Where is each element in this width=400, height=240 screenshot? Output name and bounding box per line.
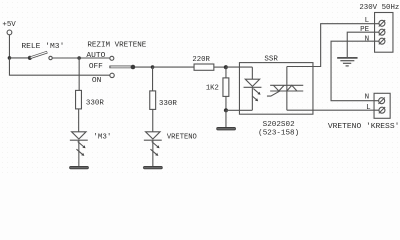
connector X2 terminal L — [379, 107, 385, 113]
label VRETENO 'KRESS' — [328, 123, 400, 131]
wire top rail to switch pole — [9, 57, 28, 59]
svg-text:'M3': 'M3' — [93, 134, 111, 142]
label (523-158) — [258, 130, 299, 138]
wire opto anode lead — [251, 67, 253, 79]
label R1 330R — [86, 99, 104, 107]
svg-text:VRETENO: VRETENO — [167, 134, 197, 142]
opto LED arrows — [252, 89, 260, 102]
connector X1 230V body — [375, 13, 393, 53]
svg-text:+5V: +5V — [2, 21, 16, 29]
svg-text:VRETENO 'KRESS': VRETENO 'KRESS' — [328, 123, 400, 131]
wire LED1 to ground — [78, 140, 80, 166]
wire triac MT2 up and to L terminal — [287, 24, 379, 67]
rotary switch ON contact circle — [110, 73, 114, 77]
switch S1 blade (open) — [30, 52, 47, 58]
label AUTO — [86, 52, 105, 60]
wire node down to R4 — [225, 67, 227, 78]
switch S1 throw contact circle — [49, 56, 52, 59]
label N top — [365, 36, 370, 44]
svg-text:1K2: 1K2 — [206, 85, 219, 93]
svg-text:230V 50Hz: 230V 50Hz — [359, 4, 399, 12]
label LED1 'M3' — [93, 134, 111, 142]
wire triac MT1 to VRETENO L terminal — [287, 109, 379, 111]
label S202S02 — [263, 121, 295, 129]
wire lower rail +5V to ON contact — [9, 58, 109, 75]
svg-text:S202S02: S202S02 — [263, 121, 295, 129]
svg-text:PE: PE — [360, 26, 369, 34]
svg-text:OFF: OFF — [89, 63, 103, 71]
wire bottom node to ground — [225, 110, 227, 127]
triac Q1 right triangle — [287, 85, 297, 91]
connector X2 VRETENO body — [374, 93, 390, 118]
wire R3 to node — [214, 66, 227, 68]
wire N to VRETENO connector — [331, 41, 379, 101]
svg-text:N: N — [365, 94, 370, 102]
ground GND1 bar — [70, 166, 89, 168]
wire rotary common to junction — [135, 66, 154, 68]
earth ground PE symbol — [337, 58, 357, 66]
label OFF — [89, 63, 103, 71]
connector X1 terminal N — [379, 38, 385, 44]
svg-text:L: L — [365, 17, 370, 25]
connector X2 terminal N — [378, 98, 384, 104]
node junction R4 top — [224, 65, 228, 69]
svg-text:330R: 330R — [159, 100, 177, 108]
wire +5V vertical down to top rail — [8, 35, 10, 58]
label R2 330R — [159, 100, 177, 108]
svg-text:AUTO: AUTO — [86, 52, 105, 60]
svg-text:REZIM VRETENE: REZIM VRETENE — [87, 41, 146, 49]
svg-text:RELE 'M3': RELE 'M3' — [21, 43, 64, 51]
svg-text:330R: 330R — [86, 99, 104, 107]
wire R2 to LED2 — [152, 109, 154, 131]
ground GND3 bar — [217, 128, 236, 130]
wire R1 to LED1 — [78, 109, 80, 132]
wire AUTO branch down to R1 — [78, 58, 80, 90]
svg-text:L: L — [366, 104, 371, 112]
label LED2 VRETENO — [167, 134, 197, 142]
wire junction to R3 — [153, 66, 195, 68]
label ON — [92, 77, 102, 85]
svg-text:N: N — [365, 36, 370, 44]
label R3 220R — [192, 56, 210, 64]
node junction R4 bottom — [224, 108, 228, 112]
label PE — [360, 26, 369, 34]
opto LED cathode bar — [244, 86, 262, 88]
node junction AUTO branch — [77, 56, 109, 60]
label L bottom — [366, 104, 371, 112]
wire R4 to bottom node — [225, 96, 227, 110]
wire PE to earth — [347, 32, 379, 57]
wire opto cathode lead — [251, 87, 253, 110]
LED D1 arrows — [76, 142, 85, 156]
wire junction down to R2 — [152, 67, 154, 91]
resistor R2 330R body — [150, 91, 156, 110]
supply +5V label — [2, 21, 16, 29]
label SSR — [264, 56, 278, 64]
rotary switch AUTO contact circle — [110, 56, 114, 60]
wire LED2 to ground — [152, 140, 154, 166]
resistor R4 1K2 body — [223, 78, 229, 97]
rotary switch blade on OFF position — [109, 66, 132, 69]
switch S1 RELE M3 pole dot — [28, 56, 32, 60]
supply +5V pin circle — [7, 30, 12, 35]
LED D1 cathode bar — [70, 139, 88, 141]
LED D1 'M3' triangle — [72, 132, 87, 139]
triac Q1 vertical lead — [286, 67, 288, 111]
node junction at +5V rail split — [8, 56, 12, 60]
rotary switch common pole dot — [131, 65, 136, 70]
resistor R1 330R body — [76, 90, 82, 109]
label RELE 'M3' — [21, 43, 64, 51]
svg-text:ON: ON — [92, 77, 102, 85]
triac Q1 gate — [267, 91, 280, 96]
resistor R3 220R body — [194, 64, 214, 70]
wire bottom node to opto cathode — [226, 109, 252, 111]
wire node into SSR opto anode — [226, 66, 253, 68]
svg-text:SSR: SSR — [264, 56, 278, 64]
triac Q1 bottom bar — [270, 90, 303, 92]
triac Q1 left triangle — [273, 85, 284, 91]
label REZIM VRETENE — [87, 41, 146, 49]
LED D2 arrows — [150, 142, 159, 156]
svg-text:(523-158): (523-158) — [258, 130, 299, 138]
label N bottom — [365, 94, 370, 102]
triac Q1 top bar — [270, 84, 303, 86]
label R4 1K2 — [206, 85, 219, 93]
SSR box U1 — [239, 63, 313, 115]
wire from S1 contact to AUTO node — [52, 57, 78, 59]
ground GND2 bar — [144, 166, 163, 168]
node junction VRETENO branch — [151, 65, 155, 69]
label L top — [365, 17, 370, 25]
label 230V 50Hz — [359, 4, 399, 12]
svg-text:220R: 220R — [192, 56, 210, 64]
opto LED triangle — [245, 79, 259, 86]
LED D2 cathode bar — [144, 139, 162, 141]
connector X1 terminal L — [379, 20, 385, 26]
LED D2 VRETENO triangle — [146, 132, 161, 139]
connector X1 terminal PE — [379, 29, 385, 35]
